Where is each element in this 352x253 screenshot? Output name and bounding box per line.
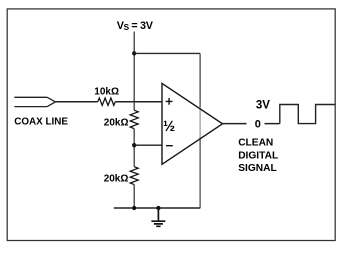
svg-text:½: ½ [163,119,175,135]
node ground stub dot [156,206,160,210]
coax line stub [14,97,55,106]
node divider midpoint dot [132,143,136,147]
op-amp - input marking [166,145,173,147]
svg-text:20kΩ: 20kΩ [104,118,129,129]
svg-text:0: 0 [255,118,261,130]
wire ground rail [114,207,201,209]
svg-text:3V: 3V [256,99,270,111]
wire Vs drop (node Vs to divider) [133,32,135,111]
op-amp + input marking [166,98,173,105]
resistor 20k upper [130,110,138,128]
resistor 10k [98,98,116,105]
resistor 20k lower [130,167,138,185]
wire op-amp supply vertical [199,53,201,107]
svg-text:DIGITAL: DIGITAL [238,150,278,161]
wire R 10k to op-amp + input [115,101,162,103]
wire op-amp output [223,123,280,125]
svg-text:VS = 3V: VS = 3V [117,20,154,32]
waveform clean digital signal [280,105,336,124]
svg-text:10kΩ: 10kΩ [94,86,119,97]
wire op-amp supply through symbol [199,107,201,138]
ground symbol [151,208,165,226]
wire Vs to op-amp supply [134,52,200,54]
wire midpoint to op-amp - input [134,144,162,146]
op-amp 1/2 triangle [162,83,223,164]
svg-text:COAX LINE: COAX LINE [14,116,68,127]
svg-text:20kΩ: 20kΩ [104,173,129,184]
wire op-amp ground vertical [199,138,201,208]
node Vs junction dot [132,51,136,55]
node 20k lower to rail dot [132,206,136,210]
svg-text:CLEAN: CLEAN [238,138,273,149]
wire coax to R 10k [55,101,97,103]
wire divider mid section [133,129,135,167]
wire 20k lower to ground rail [133,185,135,208]
svg-text:SIGNAL: SIGNAL [238,163,277,174]
